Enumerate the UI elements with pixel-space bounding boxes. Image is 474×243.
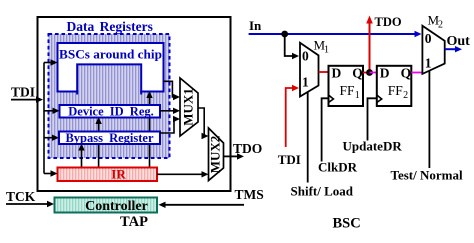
mux MUX2 [209, 128, 224, 181]
svg-text:Out: Out [447, 34, 471, 49]
wire TDI (red) [286, 88, 293, 147]
wire FF2 Q to M2 (magenta) [411, 72, 422, 74]
svg-text:FF: FF [340, 83, 356, 98]
svg-text:UpdateDR: UpdateDR [343, 139, 403, 154]
svg-text:IR: IR [111, 167, 126, 182]
svg-text:Q: Q [352, 66, 363, 81]
register Device ID [60, 105, 161, 118]
wire FF1 Q to junction (red) [363, 72, 370, 74]
svg-text:Device ID Reg.: Device ID Reg. [68, 104, 154, 118]
svg-text:ClkDR: ClkDR [318, 160, 358, 175]
wire UpdateDR [368, 98, 377, 140]
wire M1 to FF1 D (red) [319, 71, 329, 73]
wire IR to BSC block [149, 94, 151, 168]
svg-text:Bypass Register: Bypass Register [65, 131, 154, 145]
svg-text:1: 1 [302, 75, 309, 90]
dashed data-registers box [49, 34, 170, 158]
svg-text:D: D [380, 66, 390, 81]
svg-text:BSC: BSC [333, 216, 361, 232]
svg-text:Shift/ Load: Shift/ Load [291, 184, 354, 199]
BSCs around chip box [58, 43, 164, 92]
wire ClkDR [322, 98, 329, 161]
chip hatched block [78, 64, 140, 94]
svg-text:1: 1 [324, 45, 329, 56]
svg-text:Q: Q [401, 66, 412, 81]
wire junction to FF2 D (magenta) [370, 72, 377, 74]
flip-flop FF1 [329, 66, 364, 106]
wire IR to MUX2 [157, 173, 203, 175]
wire TDO up (red) [369, 22, 371, 73]
register IR [58, 168, 158, 182]
node junction on In [281, 31, 288, 38]
wire TDI input [11, 99, 37, 101]
svg-text:1: 1 [425, 56, 432, 71]
svg-text:In: In [249, 18, 262, 33]
svg-text:Data Registers: Data Registers [67, 19, 153, 34]
outer box TAP [38, 17, 231, 191]
svg-text:2: 2 [438, 19, 443, 30]
wire MUX2 to TDO [224, 155, 239, 157]
svg-text:MUX2: MUX2 [208, 136, 223, 174]
flip-flop FF2 [377, 66, 412, 106]
wire bus to BSC box [44, 62, 52, 64]
mux M1 [300, 43, 319, 97]
wire Device ID to MUX1 [160, 110, 175, 112]
svg-text:TMS: TMS [235, 187, 264, 202]
wire MUX1 to MUX2 [198, 108, 204, 136]
register Bypass [59, 132, 160, 145]
wire IR to Device ID [98, 120, 100, 168]
svg-text:TDI: TDI [11, 85, 35, 100]
svg-text:Test/ Normal: Test/ Normal [391, 168, 463, 183]
wire M1 select to Shift/Load [307, 92, 309, 183]
wire TMS input [165, 204, 244, 206]
node junction FF1-FF2 [366, 69, 373, 76]
wire In (blue) [249, 33, 416, 35]
svg-text:BSCs around chip: BSCs around chip [59, 47, 162, 62]
svg-text:MUX1: MUX1 [181, 88, 196, 126]
svg-text:0: 0 [302, 49, 309, 64]
svg-text:FF: FF [388, 83, 404, 98]
wire TDI bus vertical [43, 63, 45, 174]
wire bus to IR [44, 173, 52, 175]
svg-text:TDI: TDI [278, 152, 301, 167]
svg-text:TCK: TCK [6, 189, 36, 204]
controller box [55, 198, 158, 213]
wire bus to Device ID [44, 110, 54, 112]
wire bus to Bypass [44, 137, 54, 139]
svg-text:D: D [332, 66, 342, 81]
wire BSC box to MUX1 [164, 81, 175, 97]
svg-text:Controller: Controller [85, 199, 148, 214]
mux M2 [422, 26, 444, 74]
svg-text:2: 2 [403, 90, 408, 101]
wire IR to Bypass [81, 146, 83, 168]
svg-text:TDO: TDO [233, 141, 262, 156]
svg-text:1: 1 [355, 90, 360, 101]
wire TCK input [6, 203, 47, 205]
clock wedge FF2 [377, 95, 382, 103]
mux MUX1 [180, 78, 198, 136]
svg-text:TDO: TDO [375, 15, 402, 29]
wire Bypass to MUX1 [160, 119, 175, 133]
svg-text:TAP: TAP [120, 214, 148, 230]
wire Out (blue) [445, 48, 456, 50]
wire In branch to M1 [285, 34, 293, 56]
svg-text:0: 0 [425, 31, 432, 46]
clock wedge FF1 [329, 95, 334, 103]
wire M2 select to Test/Normal [428, 71, 430, 168]
